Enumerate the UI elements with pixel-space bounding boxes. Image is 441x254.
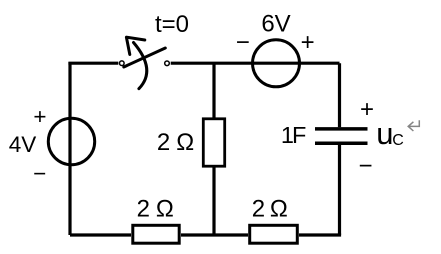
svg-text:−: − [33,161,46,186]
resistor R1 2 ohm middle box [203,119,224,166]
paragraph return mark [408,120,419,131]
switch S contact right [165,61,170,66]
svg-text:t=0: t=0 [155,11,189,38]
wire bottom segment 3 [299,233,341,236]
voltage source V1 4V circle [48,118,94,164]
switch arrow head [126,37,144,54]
polarity plus of 4V [33,104,46,129]
svg-text:2Ω: 2Ω [137,196,174,223]
label t=0 [155,11,189,38]
polarity plus of 6V [301,29,315,56]
label 4V [9,132,37,157]
wire right vertical bottom [338,145,341,235]
svg-text:2Ω: 2Ω [157,129,194,156]
label 2 ohm bottom right [252,196,288,223]
wire bottom segment 2 [181,233,248,236]
svg-text:C: C [392,132,404,149]
svg-text:−: − [358,153,372,180]
wire bottom segment 1 [70,233,131,236]
svg-text:−: − [236,29,250,56]
switch S contact left [120,61,125,66]
svg-text:+: + [360,96,374,123]
label 6V [261,11,290,38]
wire top right segment [171,62,340,65]
wire top left segment [68,62,118,65]
capacitor C1 top plate [315,127,368,131]
wire middle vertical bottom [212,167,215,235]
svg-text:u: u [376,116,393,151]
polarity plus of capacitor [360,96,374,123]
switch S blade [124,48,166,67]
svg-text:4V: 4V [9,132,37,157]
svg-text:6V: 6V [261,11,290,38]
voltage source V2 6V circle [253,40,300,87]
svg-text:+: + [301,29,315,56]
polarity minus of 6V [236,29,250,56]
label 2 ohm bottom left [137,196,174,223]
capacitor C1 bottom plate [315,141,368,145]
switch actuation arc [134,43,147,89]
wire middle vertical top [212,63,215,118]
svg-text:1F: 1F [281,122,306,148]
resistor R3 2 ohm bottom right box [250,225,298,243]
wire left vertical [68,62,71,235]
resistor R2 2 ohm bottom left box [133,225,179,243]
label 1F [281,122,306,148]
svg-text:+: + [33,104,46,129]
wire right vertical top [338,63,341,127]
label 2 ohm middle [157,129,194,156]
label uC [376,116,404,151]
polarity minus of capacitor [358,153,372,180]
svg-text:2Ω: 2Ω [252,196,288,223]
polarity minus of 4V [33,161,46,186]
